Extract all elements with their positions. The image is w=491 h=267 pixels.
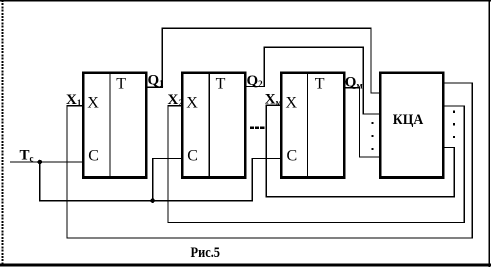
svg-text:КЦА: КЦА bbox=[393, 112, 424, 128]
svg-text:X: X bbox=[87, 94, 99, 111]
svg-text:T: T bbox=[315, 75, 325, 92]
svg-text:C: C bbox=[88, 147, 99, 164]
svg-text:X: X bbox=[186, 94, 198, 111]
svg-text:T: T bbox=[116, 75, 126, 92]
svg-text:C: C bbox=[187, 147, 198, 164]
svg-text:C: C bbox=[287, 147, 298, 164]
svg-text:T: T bbox=[216, 75, 226, 92]
svg-text:Рис.5: Рис.5 bbox=[191, 245, 221, 261]
svg-text:X: X bbox=[286, 94, 298, 111]
